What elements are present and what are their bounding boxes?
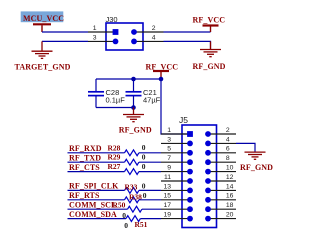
J5 pin 15 (161, 193, 193, 203)
wire capacitor bottom rail (96, 107, 134, 109)
J5 pin 18 (205, 202, 236, 212)
J5 pin 17 (161, 202, 193, 212)
J5 pin 2 (205, 127, 236, 137)
J30 pin 2 (131, 25, 163, 35)
resistor R27 (125, 169, 139, 175)
wire RF_RTS (68, 199, 125, 201)
svg-text:R51: R51 (135, 220, 148, 229)
svg-text:1: 1 (93, 25, 97, 32)
resistor R28 (125, 150, 139, 156)
svg-text:RF_GND: RF_GND (193, 62, 226, 71)
svg-text:COMM_SDA: COMM_SDA (69, 210, 117, 219)
svg-text:5: 5 (167, 146, 171, 153)
svg-text:RF_GND: RF_GND (240, 163, 273, 172)
svg-text:17: 17 (163, 202, 171, 209)
wire MCU_VCC to J30 pin 1 (42, 31, 88, 33)
svg-text:7: 7 (167, 155, 171, 162)
J5 pin 5 (161, 146, 193, 156)
svg-text:RF_CTS: RF_CTS (69, 163, 100, 172)
svg-text:4: 4 (226, 136, 230, 143)
ground RF_GND (J5 pin 4) (245, 152, 266, 159)
svg-text:1: 1 (167, 127, 171, 134)
svg-text:8: 8 (226, 155, 230, 162)
J5 pin 4 (205, 136, 236, 146)
wire RF_VCC rail down to J5 pin 1 (161, 79, 190, 134)
svg-text:RF_RTS: RF_RTS (69, 191, 100, 200)
wire RF_SPI_CLK (68, 189, 125, 191)
J5 pin 19 (161, 212, 193, 222)
svg-text:R50: R50 (113, 201, 126, 210)
ground TARGET_GND (32, 41, 53, 58)
J5 pin 10 (205, 165, 236, 175)
wire RF_CTS (68, 171, 125, 173)
svg-text:13: 13 (163, 183, 171, 190)
svg-text:RF_VCC: RF_VCC (146, 62, 179, 71)
J5 pin 13 (161, 183, 193, 193)
J5 pin 1 (161, 127, 193, 137)
J5 pin 3 (161, 136, 193, 146)
svg-text:RF_SPI_CLK: RF_SPI_CLK (69, 182, 119, 191)
J30 pin 1 (88, 25, 118, 35)
wire RF_TXD (68, 161, 125, 163)
resistor R38 (125, 197, 139, 203)
svg-text:COMM_SCL: COMM_SCL (69, 200, 116, 209)
connector J5 body (182, 125, 217, 228)
svg-text:47µF: 47µF (143, 96, 161, 105)
resistor R29 (125, 159, 139, 165)
svg-text:0: 0 (142, 162, 146, 171)
J5 pin 6 (205, 146, 236, 156)
wire J30 pin 4 to RF_GND (164, 41, 211, 49)
svg-text:RF_RXD: RF_RXD (69, 144, 102, 153)
wire J30 pin 2 to RF_VCC (164, 31, 211, 33)
svg-text:0: 0 (142, 182, 146, 191)
junction ground tap (131, 105, 136, 110)
svg-text:14: 14 (226, 183, 234, 190)
junction C21 top (131, 77, 136, 82)
svg-text:0: 0 (142, 143, 146, 152)
ground RF_GND (top right) (200, 41, 221, 56)
svg-text:2: 2 (152, 25, 156, 32)
svg-text:0: 0 (143, 191, 147, 200)
svg-text:10: 10 (226, 165, 234, 172)
svg-text:12: 12 (226, 174, 234, 181)
svg-text:15: 15 (163, 193, 171, 200)
svg-text:0: 0 (142, 152, 146, 161)
J5 pin 7 (161, 155, 193, 165)
svg-text:R28: R28 (108, 143, 121, 152)
svg-text:RF_GND: RF_GND (119, 125, 152, 134)
svg-text:11: 11 (164, 174, 171, 181)
svg-text:R27: R27 (108, 162, 121, 171)
svg-text:J5: J5 (179, 115, 188, 125)
J5 pin 9 (161, 165, 193, 175)
capacitor C28 (88, 79, 125, 108)
ground RF_GND (capacitor rail) (123, 108, 144, 122)
J30 pin 3 (88, 34, 118, 44)
J5 pin 12 (205, 174, 236, 184)
wire J5 pin 4 to RF_GND (236, 143, 255, 152)
J5 pin 11 (161, 174, 193, 184)
svg-text:20: 20 (226, 212, 234, 219)
capacitor C21 (126, 79, 161, 108)
svg-text:2: 2 (226, 127, 230, 134)
J30 pin 4 (131, 34, 163, 44)
svg-text:4: 4 (152, 34, 156, 41)
svg-text:MCU_VCC: MCU_VCC (23, 14, 64, 23)
svg-text:16: 16 (226, 193, 234, 200)
wire RF_RXD (68, 152, 125, 154)
wire COMM_SDA (68, 218, 127, 220)
wire capacitor top rail (96, 78, 161, 80)
svg-text:0: 0 (122, 211, 126, 220)
resistor R33 (125, 188, 139, 194)
svg-text:19: 19 (163, 212, 171, 219)
svg-text:R29: R29 (108, 153, 121, 162)
power symbol RF_VCC (capacitor rail) (153, 71, 169, 79)
J5 pin 20 (205, 212, 236, 222)
power symbol MCU_VCC (33, 24, 51, 32)
resistor R50 (128, 206, 142, 212)
svg-text:3: 3 (93, 34, 97, 41)
J5 pin 14 (205, 183, 236, 193)
resistor R51 (126, 216, 140, 222)
J5 pin 16 (205, 193, 236, 203)
wire COMM_SCL (68, 208, 128, 210)
power symbol RF_VCC (top right) (203, 26, 219, 33)
svg-text:TARGET_GND: TARGET_GND (15, 63, 71, 72)
svg-text:0: 0 (124, 221, 128, 230)
J5 pin 8 (205, 155, 236, 165)
node MCU_VCC selection highlight (21, 11, 64, 22)
svg-text:3: 3 (167, 136, 171, 143)
junction RF_VCC rail to J5 feed (159, 77, 164, 82)
svg-text:18: 18 (226, 202, 234, 209)
wire TARGET_GND to J30 pin 3 (42, 40, 88, 42)
svg-text:0.1µF: 0.1µF (106, 96, 126, 105)
svg-text:6: 6 (226, 146, 230, 153)
svg-text:R33: R33 (125, 183, 138, 192)
svg-text:9: 9 (167, 165, 171, 172)
connector J30 body (106, 23, 143, 50)
svg-text:RF_VCC: RF_VCC (193, 15, 226, 24)
svg-text:RF_TXD: RF_TXD (69, 153, 101, 162)
